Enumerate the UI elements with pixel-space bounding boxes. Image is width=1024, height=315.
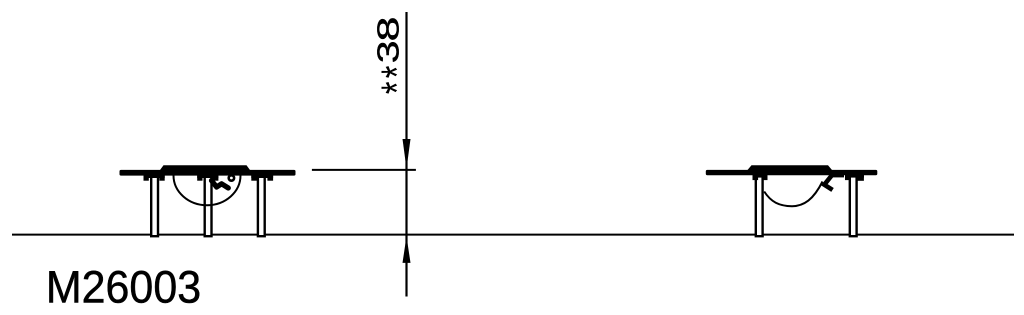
table A crank handle <box>212 181 229 189</box>
table B spout lever <box>824 173 833 189</box>
table B left leg <box>756 175 763 236</box>
table A center leg <box>205 175 212 236</box>
table A left leg <box>151 175 158 236</box>
svg-text:*: * <box>373 66 422 79</box>
svg-text:*: * <box>373 82 422 95</box>
table B raised plate <box>748 165 833 170</box>
table A top bar <box>120 170 296 176</box>
table B top bar <box>706 170 878 175</box>
table A right bracket <box>251 175 273 181</box>
table A left bracket <box>144 175 165 181</box>
table B spout mount <box>832 175 844 178</box>
dimension label **38 rotated <box>370 16 422 94</box>
table B left bracket <box>753 175 768 180</box>
svg-text:M26003: M26003 <box>46 262 201 312</box>
table A bowl basin <box>174 175 241 205</box>
svg-text:8: 8 <box>371 16 406 41</box>
svg-text:3: 3 <box>370 41 405 64</box>
table B right bracket <box>845 175 864 181</box>
table A raised plate <box>160 165 250 170</box>
table B hammock sling <box>764 182 822 207</box>
table A center bracket <box>197 175 218 181</box>
dimension vertical line <box>405 12 407 297</box>
table A right leg <box>258 175 265 236</box>
table A eyelet <box>229 175 234 180</box>
dimension down arrow <box>403 139 411 169</box>
dimension up arrow <box>403 236 411 263</box>
table B right leg <box>850 175 857 236</box>
dimension extension line at table top <box>312 169 416 171</box>
ground line <box>12 234 1014 236</box>
